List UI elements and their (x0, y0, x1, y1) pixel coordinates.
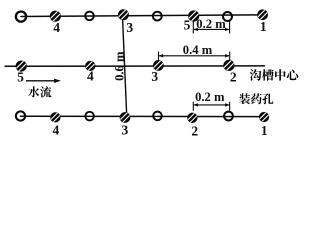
svg-text:0.4 m: 0.4 m (183, 43, 213, 57)
charge hole top row #2 (49, 10, 61, 22)
wire: middle row line (5, 65, 265, 67)
wire: bottom row line (21, 115, 264, 117)
text char 槽 (262, 69, 274, 81)
extension tick 0.4m left (158, 52, 160, 61)
svg-text:4: 4 (87, 69, 94, 84)
dimension line 0.2m top (194, 28, 229, 30)
wire: vertical line between hole 3 top and hole 3 bottom (123, 17, 127, 113)
water flow arrow (26, 80, 57, 82)
arrowhead 0.2m top right (225, 28, 230, 31)
open hole top row #7 (223, 12, 232, 21)
svg-text:2: 2 (191, 123, 198, 138)
text char 孔 (262, 93, 273, 104)
charge hole top row #4 (118, 9, 130, 21)
svg-text:3: 3 (151, 69, 158, 84)
svg-text:1: 1 (261, 123, 268, 138)
svg-text:5: 5 (184, 17, 191, 32)
svg-text:0.2 m: 0.2 m (195, 90, 225, 104)
arrowhead 0.2m bottom right (225, 103, 230, 106)
charge hole bottom row #4 (119, 112, 131, 124)
open hole bottom row #3 (85, 112, 94, 121)
text char 中 (275, 69, 286, 81)
svg-text:3: 3 (126, 20, 133, 35)
charge hole bottom row #2 (50, 112, 61, 123)
text char 心 (287, 69, 299, 80)
dimension line 0.2m bottom (194, 104, 229, 106)
arrowhead 0.4m right (225, 54, 230, 57)
extension tick above top 0.2m dim right (229, 21, 231, 34)
svg-text:1: 1 (260, 19, 267, 34)
arrowhead 0.2m bottom left (193, 103, 198, 106)
charge hole bottom row #8 (258, 111, 269, 122)
charge hole middle row #4 (223, 59, 235, 71)
charge hole top row #6 (188, 10, 200, 22)
charge hole middle row #3 (153, 60, 165, 72)
svg-text:3: 3 (122, 122, 129, 137)
text char 药 (251, 93, 262, 104)
extension tick bottom 0.2m right (229, 102, 231, 111)
arrowhead 0.2m top left (193, 28, 198, 31)
extension tick above top 0.2m dim left (192, 20, 194, 34)
open hole top row #3 (85, 12, 94, 21)
svg-text:0.6 m: 0.6 m (112, 51, 126, 81)
extension tick 0.4m right (229, 52, 231, 61)
charge hole middle row #2 (85, 60, 96, 71)
open hole bottom row #7 (224, 112, 233, 121)
svg-text:2: 2 (230, 70, 237, 85)
svg-text:5: 5 (17, 70, 24, 85)
svg-text:4: 4 (53, 122, 60, 137)
extension tick bottom 0.2m left (192, 102, 194, 111)
text char 流 (flow) (40, 86, 51, 97)
charge hole middle row #1 (15, 60, 27, 72)
charge hole bottom row #6 (187, 112, 198, 123)
wire: top row line (21, 15, 260, 17)
text char 沟 (250, 69, 262, 81)
dimension line 0.4m (159, 55, 229, 57)
charge hole top row #8 (257, 9, 269, 21)
open hole top row #5 (153, 12, 162, 21)
open hole top row #1 (16, 11, 26, 21)
svg-text:0.2 m: 0.2 m (196, 17, 226, 31)
arrowhead 0.4m left (159, 54, 164, 57)
text char 装 (239, 93, 250, 104)
open hole bottom row #1 (16, 111, 25, 120)
open hole bottom row #5 (153, 112, 162, 121)
svg-text:4: 4 (53, 20, 60, 35)
text char 水 (water) (28, 86, 39, 97)
